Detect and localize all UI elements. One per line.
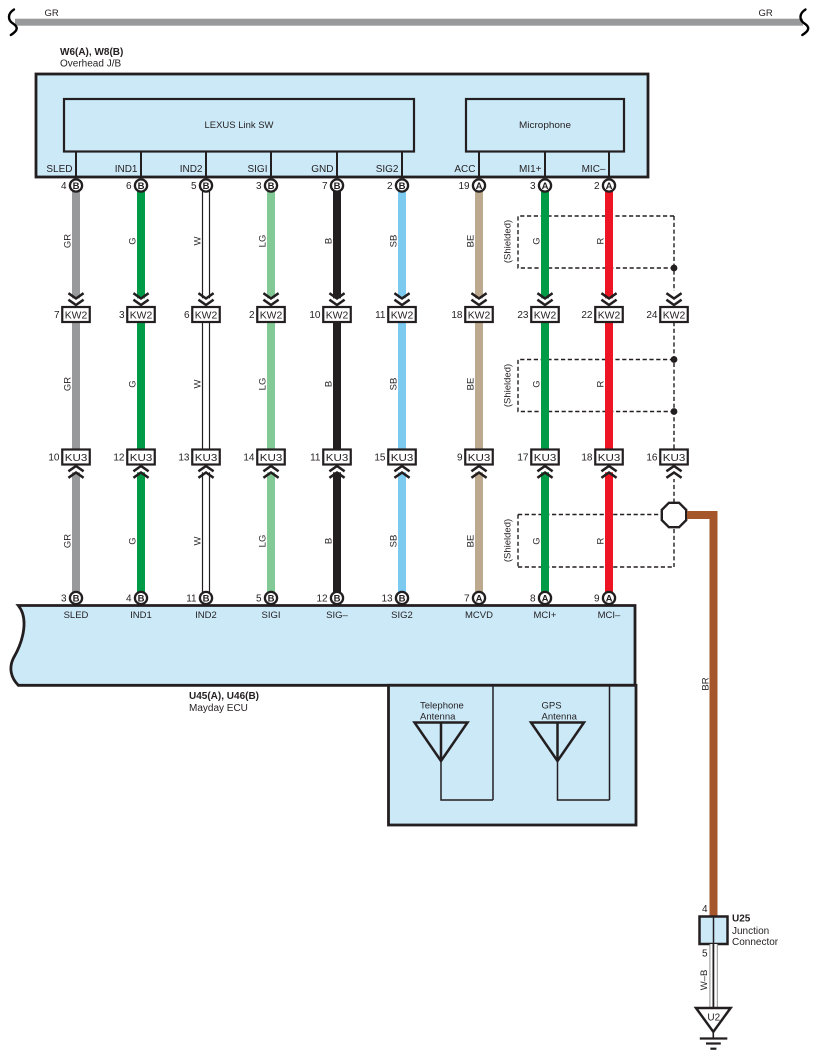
svg-text:9: 9 <box>594 594 600 605</box>
svg-text:GR: GR <box>63 377 74 391</box>
svg-text:BR: BR <box>701 677 712 690</box>
svg-text:U45(A), U46(B): U45(A), U46(B) <box>189 691 259 702</box>
svg-text:A: A <box>476 593 483 604</box>
svg-text:A: A <box>476 181 483 192</box>
svg-text:7: 7 <box>464 594 470 605</box>
svg-text:SLED: SLED <box>64 610 89 621</box>
svg-text:KW2: KW2 <box>534 311 557 322</box>
svg-text:11: 11 <box>310 453 321 464</box>
svg-text:KU3: KU3 <box>195 453 218 464</box>
svg-text:G: G <box>532 237 543 244</box>
svg-text:GR: GR <box>63 534 74 548</box>
svg-text:22: 22 <box>581 310 593 321</box>
svg-text:KU3: KU3 <box>130 453 153 464</box>
svg-text:Junction: Junction <box>732 926 769 937</box>
svg-text:LEXUS Link SW: LEXUS Link SW <box>205 120 274 131</box>
svg-text:U2: U2 <box>707 1013 720 1024</box>
svg-text:(Shielded): (Shielded) <box>503 364 514 407</box>
svg-text:KW2: KW2 <box>326 311 349 322</box>
svg-text:12: 12 <box>113 453 125 464</box>
svg-text:BE: BE <box>466 378 477 391</box>
svg-text:2: 2 <box>249 310 255 321</box>
svg-text:12: 12 <box>316 594 328 605</box>
svg-text:A: A <box>542 593 549 604</box>
svg-text:ACC: ACC <box>454 164 475 175</box>
svg-text:B: B <box>334 181 341 192</box>
svg-text:KU3: KU3 <box>65 453 88 464</box>
svg-text:LG: LG <box>258 535 269 548</box>
svg-text:10: 10 <box>48 453 60 464</box>
svg-text:2: 2 <box>594 181 600 192</box>
svg-text:9: 9 <box>457 453 463 464</box>
svg-text:19: 19 <box>458 181 470 192</box>
svg-text:3: 3 <box>530 181 536 192</box>
svg-text:11: 11 <box>375 310 386 321</box>
svg-text:Overhead J/B: Overhead J/B <box>60 59 121 70</box>
svg-text:W–B: W–B <box>699 970 710 991</box>
svg-text:Connector: Connector <box>732 937 779 948</box>
svg-text:GR: GR <box>63 234 74 248</box>
svg-text:B: B <box>268 593 275 604</box>
svg-text:GR: GR <box>45 8 59 19</box>
svg-text:IND2: IND2 <box>195 610 217 621</box>
svg-text:B: B <box>138 181 145 192</box>
svg-text:KU3: KU3 <box>468 453 491 464</box>
svg-text:G: G <box>128 537 139 544</box>
svg-text:B: B <box>324 238 335 244</box>
svg-text:A: A <box>542 181 549 192</box>
svg-text:B: B <box>138 593 145 604</box>
svg-text:3: 3 <box>119 310 125 321</box>
svg-text:IND1: IND1 <box>130 610 152 621</box>
svg-text:KW2: KW2 <box>598 311 621 322</box>
svg-text:6: 6 <box>184 310 190 321</box>
svg-text:3: 3 <box>256 181 262 192</box>
svg-text:W: W <box>193 379 204 388</box>
svg-text:GND: GND <box>311 164 333 175</box>
svg-text:10: 10 <box>309 310 321 321</box>
svg-text:BE: BE <box>466 535 477 548</box>
svg-text:B: B <box>73 181 80 192</box>
svg-text:5: 5 <box>702 949 708 960</box>
svg-text:SIGI: SIGI <box>261 610 280 621</box>
svg-text:Telephone: Telephone <box>420 701 464 712</box>
svg-text:GPS: GPS <box>542 701 562 712</box>
svg-text:MCVD: MCVD <box>465 610 493 621</box>
svg-text:SB: SB <box>389 378 400 391</box>
svg-text:BE: BE <box>466 235 477 248</box>
svg-text:KU3: KU3 <box>326 453 349 464</box>
svg-text:KW2: KW2 <box>130 311 153 322</box>
svg-text:Microphone: Microphone <box>519 120 571 131</box>
svg-text:R: R <box>596 380 607 387</box>
svg-text:3: 3 <box>61 594 67 605</box>
svg-text:B: B <box>399 593 406 604</box>
svg-text:B: B <box>334 593 341 604</box>
svg-text:17: 17 <box>517 453 529 464</box>
svg-text:Mayday ECU: Mayday ECU <box>189 703 248 714</box>
svg-text:KU3: KU3 <box>663 453 686 464</box>
svg-text:Antenna: Antenna <box>420 712 456 723</box>
svg-text:IND2: IND2 <box>180 164 203 175</box>
svg-text:MI1+: MI1+ <box>519 164 542 175</box>
svg-text:13: 13 <box>178 453 190 464</box>
svg-text:GR: GR <box>759 8 773 19</box>
svg-text:A: A <box>606 593 613 604</box>
svg-text:B: B <box>324 538 335 544</box>
svg-text:KW2: KW2 <box>468 311 491 322</box>
svg-text:4: 4 <box>702 904 708 915</box>
svg-text:R: R <box>596 237 607 244</box>
svg-text:B: B <box>203 593 210 604</box>
svg-text:W: W <box>193 236 204 245</box>
svg-text:IND1: IND1 <box>115 164 138 175</box>
svg-text:MIC–: MIC– <box>582 164 606 175</box>
svg-text:KU3: KU3 <box>598 453 621 464</box>
svg-text:U25: U25 <box>732 914 751 925</box>
svg-text:MCI+: MCI+ <box>534 610 557 621</box>
svg-text:W6(A), W8(B): W6(A), W8(B) <box>60 47 123 58</box>
svg-text:SIG–: SIG– <box>326 610 348 621</box>
svg-text:LG: LG <box>258 235 269 248</box>
svg-text:B: B <box>399 181 406 192</box>
svg-text:G: G <box>532 537 543 544</box>
svg-text:MCI–: MCI– <box>598 610 621 621</box>
svg-text:14: 14 <box>243 453 255 464</box>
svg-text:7: 7 <box>54 310 60 321</box>
svg-text:7: 7 <box>322 181 328 192</box>
svg-text:18: 18 <box>451 310 463 321</box>
svg-text:5: 5 <box>191 181 197 192</box>
svg-text:4: 4 <box>61 181 67 192</box>
svg-text:18: 18 <box>581 453 593 464</box>
svg-text:KU3: KU3 <box>391 453 414 464</box>
svg-text:16: 16 <box>646 453 658 464</box>
svg-text:W: W <box>193 536 204 545</box>
svg-text:24: 24 <box>646 310 658 321</box>
svg-text:SIG2: SIG2 <box>391 610 413 621</box>
svg-text:B: B <box>203 181 210 192</box>
svg-text:KW2: KW2 <box>663 311 686 322</box>
svg-text:KU3: KU3 <box>260 453 283 464</box>
svg-text:2: 2 <box>387 181 393 192</box>
svg-text:SB: SB <box>389 235 400 248</box>
svg-text:R: R <box>596 537 607 544</box>
svg-text:SIGI: SIGI <box>247 164 267 175</box>
svg-text:KW2: KW2 <box>391 311 414 322</box>
svg-text:(Shielded): (Shielded) <box>503 519 514 562</box>
svg-text:Antenna: Antenna <box>542 712 578 723</box>
svg-text:11: 11 <box>186 594 197 605</box>
svg-text:6: 6 <box>126 181 132 192</box>
svg-text:SLED: SLED <box>46 164 72 175</box>
svg-text:KW2: KW2 <box>260 311 283 322</box>
svg-text:G: G <box>532 380 543 387</box>
svg-text:A: A <box>606 181 613 192</box>
svg-text:8: 8 <box>530 594 536 605</box>
svg-text:KU3: KU3 <box>534 453 557 464</box>
svg-text:G: G <box>128 237 139 244</box>
svg-text:(Shielded): (Shielded) <box>503 220 514 263</box>
svg-text:KW2: KW2 <box>65 311 88 322</box>
svg-text:SIG2: SIG2 <box>376 164 399 175</box>
svg-text:B: B <box>324 381 335 387</box>
svg-text:15: 15 <box>374 453 386 464</box>
svg-text:G: G <box>128 380 139 387</box>
svg-text:B: B <box>73 593 80 604</box>
svg-text:SB: SB <box>389 535 400 548</box>
svg-text:13: 13 <box>381 594 393 605</box>
svg-text:KW2: KW2 <box>195 311 218 322</box>
svg-text:B: B <box>268 181 275 192</box>
svg-text:23: 23 <box>517 310 529 321</box>
svg-text:5: 5 <box>256 594 262 605</box>
svg-text:4: 4 <box>126 594 132 605</box>
svg-text:LG: LG <box>258 378 269 391</box>
